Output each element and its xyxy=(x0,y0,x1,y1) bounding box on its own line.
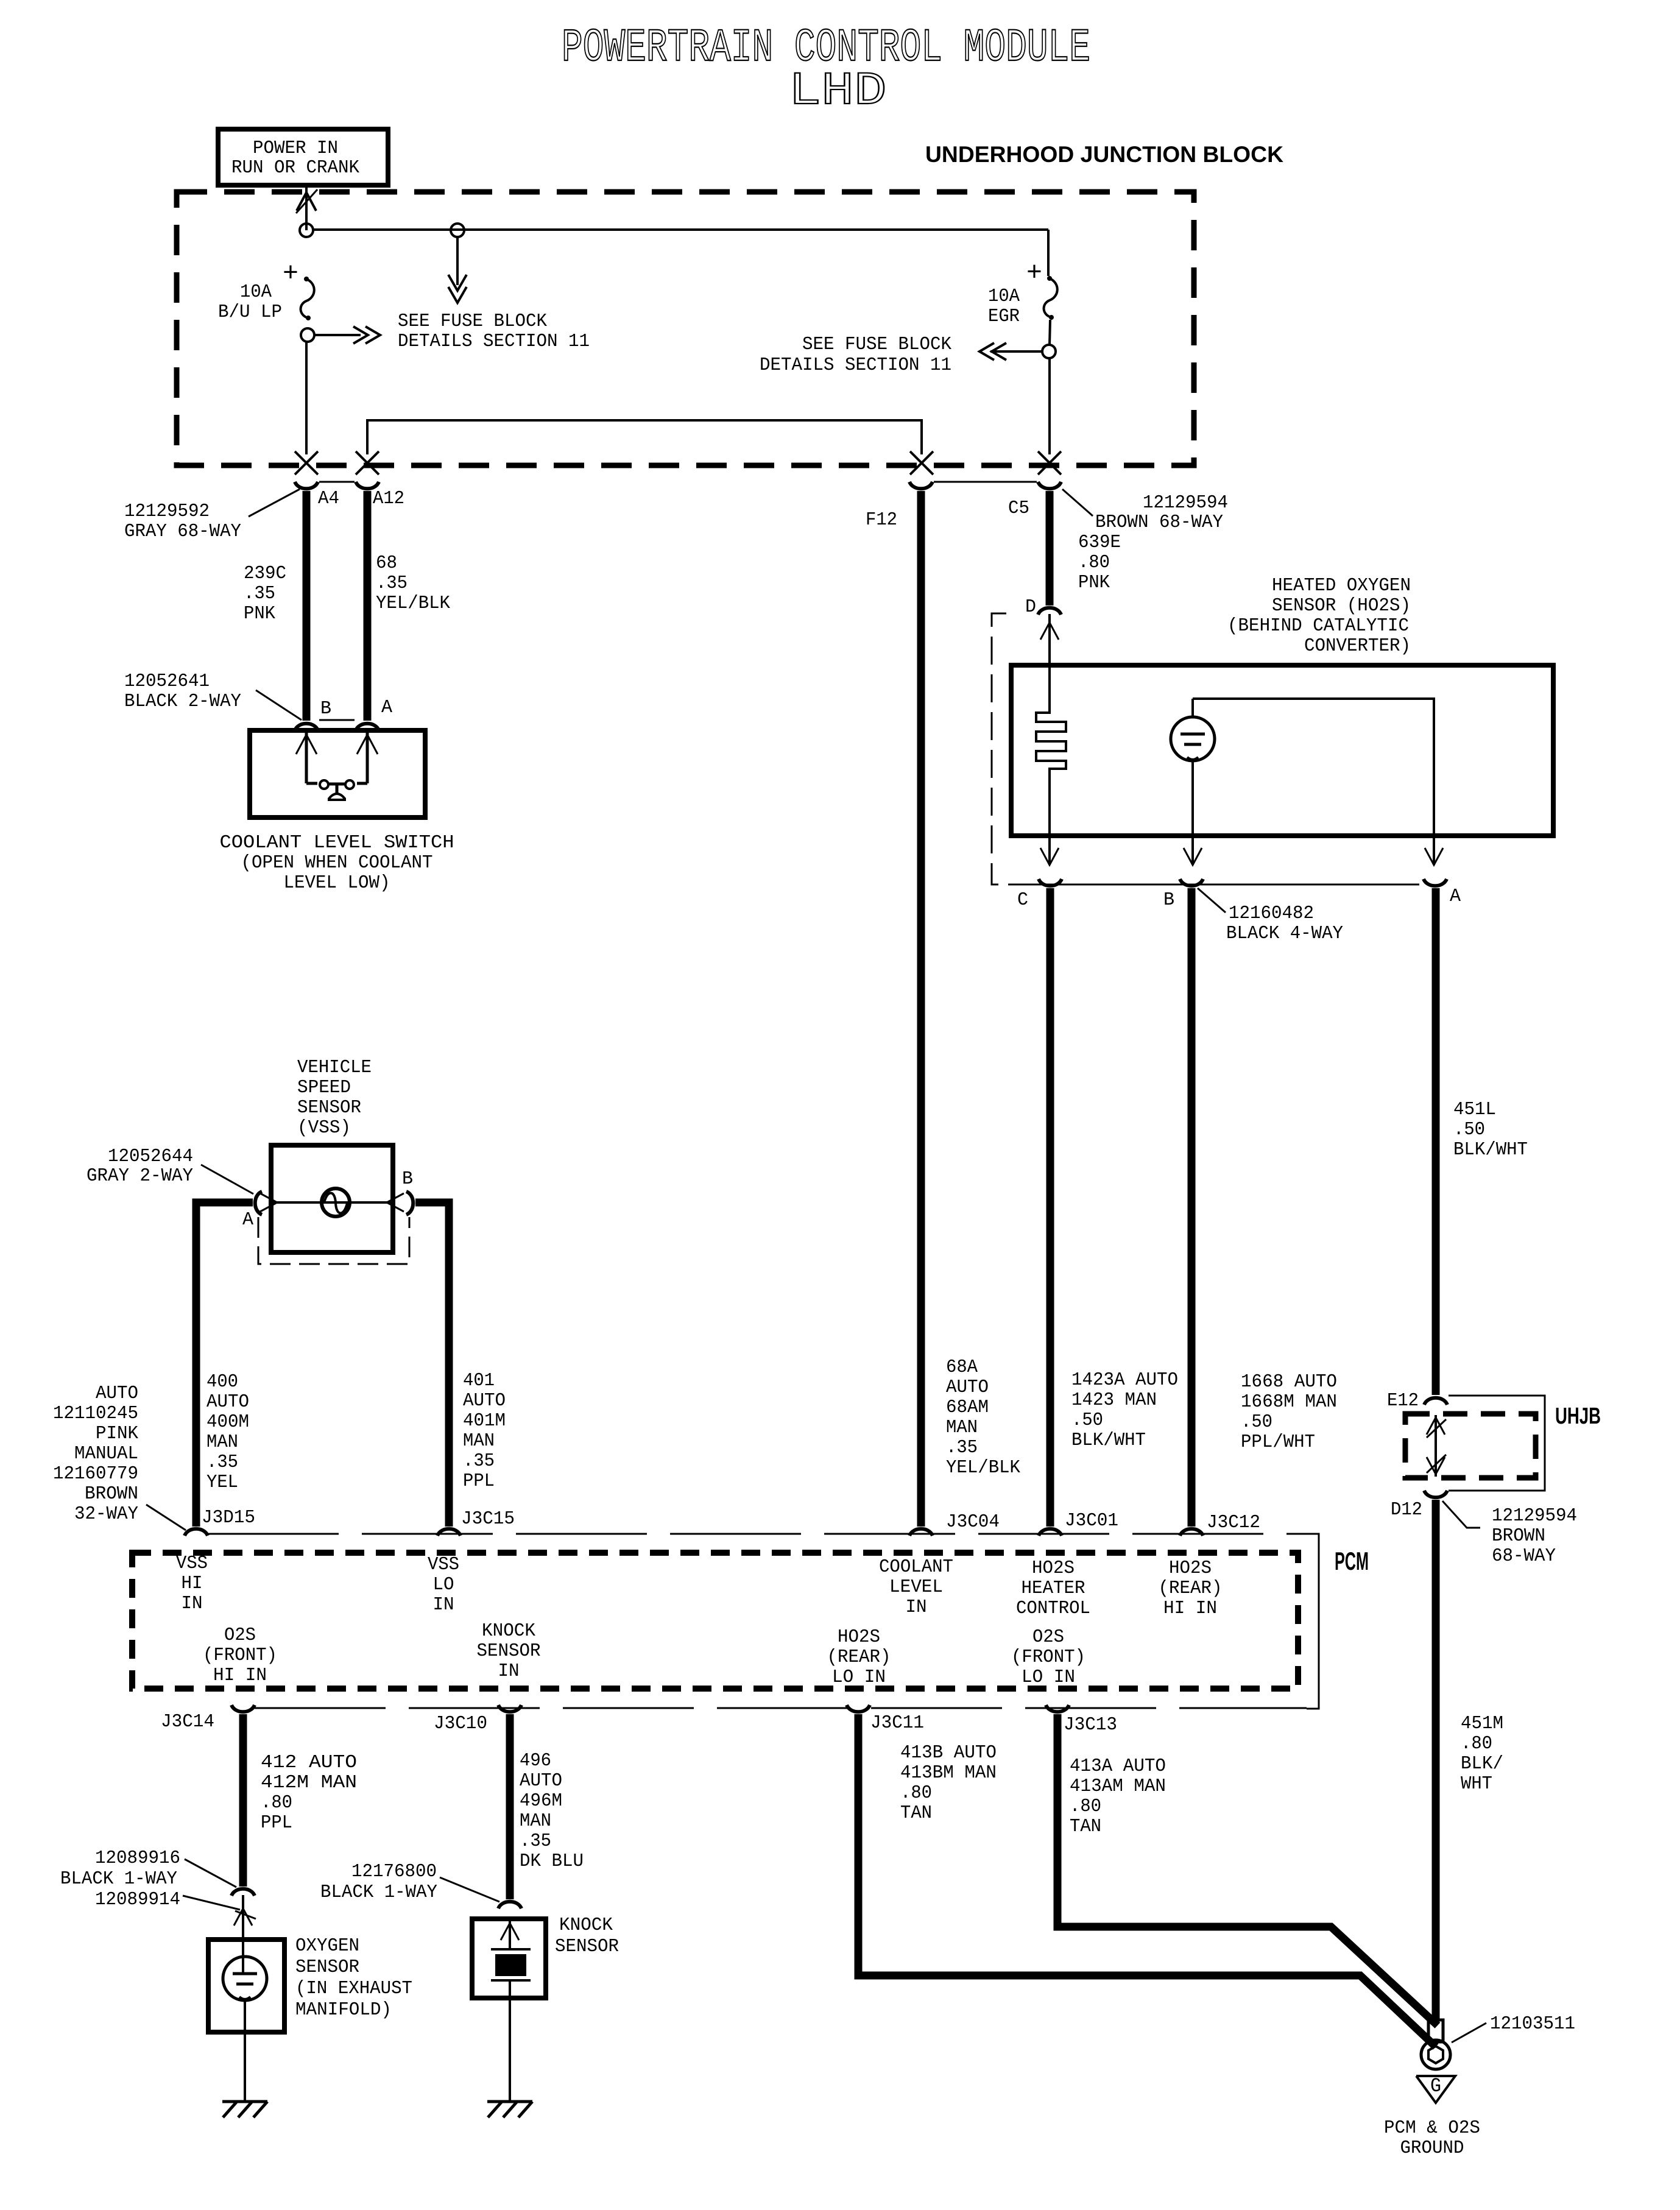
coolant level switch S1 box xyxy=(250,730,425,817)
svg-text:A: A xyxy=(242,1209,253,1230)
PCM bracket and label xyxy=(1307,1534,1319,1709)
svg-text:12052641: 12052641 xyxy=(124,671,210,692)
svg-text:TAN: TAN xyxy=(1070,1816,1101,1837)
svg-text:BROWN: BROWN xyxy=(85,1483,138,1505)
svg-text:LO IN: LO IN xyxy=(1022,1667,1075,1688)
connector pin A12 xyxy=(356,482,379,489)
svg-text:G: G xyxy=(1430,2075,1441,2097)
svg-text:PPL: PPL xyxy=(463,1470,495,1492)
svg-text:B: B xyxy=(320,698,331,719)
svg-text:496: 496 xyxy=(520,1750,551,1771)
svg-text:12089914: 12089914 xyxy=(95,1889,180,1910)
svg-text:SENSOR: SENSOR xyxy=(555,1936,619,1957)
connector pin A HO2S xyxy=(1424,879,1447,886)
svg-text:.80: .80 xyxy=(900,1782,932,1804)
svg-text:J3C01: J3C01 xyxy=(1065,1510,1118,1531)
svg-text:.35: .35 xyxy=(206,1452,238,1473)
connector pin F12 xyxy=(909,482,933,489)
svg-text:RUN OR CRANK: RUN OR CRANK xyxy=(231,157,359,178)
ground symbol oxygen sensor xyxy=(222,2100,267,2103)
svg-text:SENSOR: SENSOR xyxy=(477,1640,541,1662)
svg-text:IN: IN xyxy=(182,1593,203,1614)
connector pin C5 xyxy=(1038,482,1061,489)
svg-text:1423A AUTO: 1423A AUTO xyxy=(1071,1369,1178,1391)
svg-text:1668 AUTO: 1668 AUTO xyxy=(1241,1371,1337,1393)
svg-text:C: C xyxy=(1017,889,1028,911)
svg-text:639E: 639E xyxy=(1078,532,1121,553)
svg-text:CONTROL: CONTROL xyxy=(1016,1598,1090,1619)
svg-text:HI IN: HI IN xyxy=(213,1665,267,1686)
svg-text:TAN: TAN xyxy=(900,1802,932,1824)
wire 413B TAN J3C11 to ground xyxy=(858,1714,1436,2047)
wire 400 YEL VSS-A to PCM J3D15 xyxy=(196,1202,253,1527)
lead A out of HO2S box xyxy=(1433,836,1435,865)
fuse F1 10A B/U LP xyxy=(304,277,309,281)
svg-text:BLK/WHT: BLK/WHT xyxy=(1453,1139,1528,1160)
svg-text:12103511: 12103511 xyxy=(1490,2013,1575,2035)
svg-text:496M: 496M xyxy=(520,1790,562,1812)
svg-text:PINK: PINK xyxy=(96,1423,138,1444)
svg-text:68AM: 68AM xyxy=(946,1397,989,1418)
svg-text:C5: C5 xyxy=(1008,498,1029,519)
svg-text:SEE FUSE BLOCK: SEE FUSE BLOCK xyxy=(398,311,547,332)
svg-text:GROUND: GROUND xyxy=(1400,2138,1464,2159)
svg-text:BROWN: BROWN xyxy=(1492,1525,1545,1547)
svg-text:PPL: PPL xyxy=(261,1812,292,1834)
vehicle speed sensor B2 box xyxy=(271,1145,393,1252)
svg-text:(BEHIND CATALYTIC: (BEHIND CATALYTIC xyxy=(1227,615,1409,637)
svg-text:POWER IN: POWER IN xyxy=(253,138,338,159)
svg-text:412M MAN: 412M MAN xyxy=(261,1772,357,1793)
svg-text:COOLANT LEVEL SWITCH: COOLANT LEVEL SWITCH xyxy=(220,832,454,853)
oxygen sensor ground lead xyxy=(244,2002,246,2102)
svg-text:SENSOR: SENSOR xyxy=(295,1957,359,1978)
connector pin A coolant switch xyxy=(356,724,379,730)
wire 1668 PPL/WHT B to J3C12 xyxy=(1188,888,1196,1527)
svg-text:J3C11: J3C11 xyxy=(870,1712,924,1734)
svg-text:.80: .80 xyxy=(1078,552,1110,573)
ground symbol G PCM and O2S xyxy=(1416,2076,1455,2103)
svg-text:.50: .50 xyxy=(1453,1119,1485,1140)
connector pin J3C11 xyxy=(847,1705,870,1712)
PCM top connector line xyxy=(208,1533,1307,1535)
wire C5 inside junction block xyxy=(1048,358,1051,454)
connector 12129594 BROWN 68-WAY label at D12 xyxy=(1442,1501,1480,1528)
coolant switch contacts xyxy=(306,782,317,785)
fuse F2 10A EGR xyxy=(1047,276,1052,281)
connector pin B VSS xyxy=(406,1191,413,1215)
svg-text:HO2S: HO2S xyxy=(1032,1558,1075,1579)
connector pin A VSS xyxy=(255,1191,262,1215)
svg-text:.50: .50 xyxy=(1241,1411,1272,1433)
VSS internal link xyxy=(273,1201,391,1204)
svg-text:12089916: 12089916 xyxy=(95,1848,180,1869)
svg-text:D: D xyxy=(1025,596,1036,618)
HO2S 4-way connector bracket xyxy=(992,613,1011,884)
connector pin J3C14 xyxy=(231,1705,255,1712)
svg-text:.80: .80 xyxy=(1070,1796,1101,1817)
connector line F12-C5 xyxy=(934,481,1037,483)
svg-text:SENSOR (HO2S): SENSOR (HO2S) xyxy=(1272,595,1411,616)
connector pin J3C12 xyxy=(1180,1529,1203,1536)
svg-text:413B AUTO: 413B AUTO xyxy=(900,1742,997,1763)
svg-text:MAN: MAN xyxy=(520,1810,551,1832)
svg-text:VSS: VSS xyxy=(176,1553,208,1574)
wire 639E PNK C5 to HO2S pin D xyxy=(1046,491,1054,605)
svg-text:COOLANT: COOLANT xyxy=(879,1556,953,1578)
svg-text:MAN: MAN xyxy=(946,1417,978,1438)
svg-text:HO2S: HO2S xyxy=(838,1626,880,1648)
svg-text:B/U LP: B/U LP xyxy=(218,302,282,323)
knock sensor ground lead xyxy=(509,1980,511,2102)
heated oxygen sensor B1S2 box xyxy=(1011,665,1553,836)
svg-text:HEATED OXYGEN: HEATED OXYGEN xyxy=(1272,575,1411,596)
bus wire A12 to F12 xyxy=(367,420,922,454)
svg-text:.35: .35 xyxy=(244,583,275,604)
wire 451L BLK/WHT A to E12 xyxy=(1432,888,1440,1395)
wire coolant level F12 to J3C04 xyxy=(917,491,925,1527)
svg-text:AUTO: AUTO xyxy=(520,1770,562,1792)
connector line A4-A12 xyxy=(319,481,355,483)
svg-text:OXYGEN: OXYGEN xyxy=(295,1935,359,1957)
svg-text:12129594: 12129594 xyxy=(1143,492,1228,514)
wire 413A TAN J3C13 to ground xyxy=(1057,1714,1438,2025)
svg-text:VSS: VSS xyxy=(428,1554,459,1575)
svg-text:A4: A4 xyxy=(318,488,339,509)
svg-text:(OPEN WHEN COOLANT: (OPEN WHEN COOLANT xyxy=(241,852,433,874)
svg-text:LHD: LHD xyxy=(789,65,887,118)
connector 12160482 BLACK 4-WAY label xyxy=(1198,888,1226,913)
svg-text:PNK: PNK xyxy=(244,603,275,624)
svg-text:E12: E12 xyxy=(1387,1390,1419,1411)
svg-text:MAN: MAN xyxy=(206,1432,238,1453)
connector pin J3C10 xyxy=(498,1705,521,1712)
svg-text:YEL/BLK: YEL/BLK xyxy=(376,593,450,614)
svg-text:10A: 10A xyxy=(988,286,1020,307)
coolant switch float arm xyxy=(336,785,339,794)
svg-text:MAN: MAN xyxy=(463,1430,495,1452)
svg-text:68: 68 xyxy=(376,552,397,574)
svg-text:1423 MAN: 1423 MAN xyxy=(1071,1389,1157,1411)
UHJB dashed box xyxy=(1405,1414,1536,1478)
svg-text:D12: D12 xyxy=(1391,1499,1422,1520)
connector pin B coolant switch xyxy=(295,724,318,730)
bus wire fuse top xyxy=(313,228,1048,231)
lead C out of HO2S box xyxy=(1048,836,1051,865)
svg-text:EGR: EGR xyxy=(988,306,1020,327)
knock sensor B3 box xyxy=(472,1919,546,1998)
svg-text:BLACK 1-WAY: BLACK 1-WAY xyxy=(60,1868,177,1890)
svg-text:MANUAL: MANUAL xyxy=(74,1443,138,1464)
svg-text:LO IN: LO IN xyxy=(832,1667,886,1688)
connector pin J3C13 xyxy=(1046,1705,1069,1712)
svg-text:AUTO: AUTO xyxy=(96,1383,138,1404)
svg-text:KNOCK: KNOCK xyxy=(559,1915,613,1936)
svg-text:B: B xyxy=(1163,889,1174,911)
svg-text:+: + xyxy=(283,259,298,289)
svg-text:DK BLU: DK BLU xyxy=(520,1851,584,1872)
connector pin E12 UHJB xyxy=(1424,1398,1447,1405)
svg-text:451M: 451M xyxy=(1461,1713,1503,1734)
svg-text:SEE FUSE BLOCK: SEE FUSE BLOCK xyxy=(802,334,951,355)
svg-text:239C: 239C xyxy=(244,563,286,584)
wire 412 PPL J3C14 to oxygen sensor xyxy=(239,1714,247,1887)
wire 496 DK BLU J3C10 to knock sensor xyxy=(506,1714,514,1899)
svg-text:32-WAY: 32-WAY xyxy=(74,1503,138,1525)
HO2S connector line xyxy=(1011,884,1419,886)
svg-text:J3C13: J3C13 xyxy=(1064,1714,1117,1735)
svg-text:LEVEL: LEVEL xyxy=(889,1576,943,1598)
connector pin B HO2S xyxy=(1180,879,1203,886)
svg-text:(IN EXHAUST: (IN EXHAUST xyxy=(295,1978,412,1999)
svg-text:DETAILS SECTION 11: DETAILS SECTION 11 xyxy=(760,355,951,376)
connector line B-A coolant switch xyxy=(319,719,355,721)
svg-text:VEHICLE: VEHICLE xyxy=(297,1057,372,1078)
HO2S sensing element xyxy=(1191,699,1194,718)
coolant switch pin B lead xyxy=(305,732,308,783)
connector pin J3C04 xyxy=(909,1529,933,1536)
svg-text:BLACK 4-WAY: BLACK 4-WAY xyxy=(1226,923,1343,944)
svg-text:401: 401 xyxy=(463,1370,495,1391)
feed tap arrow down xyxy=(456,237,459,285)
VSS connector bracket xyxy=(258,1217,409,1264)
svg-text:A: A xyxy=(381,697,392,718)
svg-text:IN: IN xyxy=(433,1594,454,1615)
svg-text:F12: F12 xyxy=(866,509,897,531)
svg-text:IN: IN xyxy=(906,1597,927,1618)
arrow into junction block top xyxy=(297,192,316,211)
lead B out of HO2S box xyxy=(1191,836,1194,865)
connector knock sensor 1-way xyxy=(498,1902,521,1908)
svg-text:400: 400 xyxy=(206,1371,238,1393)
svg-text:413BM MAN: 413BM MAN xyxy=(900,1762,997,1784)
svg-text:BLK/WHT: BLK/WHT xyxy=(1071,1430,1146,1451)
boundary cross A4 xyxy=(295,451,318,475)
svg-text:AUTO: AUTO xyxy=(946,1377,989,1398)
svg-text:68-WAY: 68-WAY xyxy=(1492,1545,1556,1567)
svg-text:10A: 10A xyxy=(240,281,272,303)
svg-text:PPL/WHT: PPL/WHT xyxy=(1241,1432,1315,1453)
svg-text:AUTO: AUTO xyxy=(463,1390,506,1411)
svg-text:B: B xyxy=(402,1168,413,1190)
svg-text:A: A xyxy=(1450,886,1461,907)
arrow from EGR fuse to fuse block note xyxy=(990,350,1042,353)
svg-text:12129592: 12129592 xyxy=(124,501,210,522)
junction circle at B/U LP fuse top xyxy=(300,224,313,237)
knock sensor lead xyxy=(509,1921,511,1949)
ground symbol knock sensor xyxy=(487,2100,532,2103)
oxygen sensor element xyxy=(223,1957,267,2000)
svg-text:.35: .35 xyxy=(520,1830,551,1852)
svg-text:401M: 401M xyxy=(463,1410,506,1432)
svg-text:.35: .35 xyxy=(463,1450,495,1472)
svg-text:UHJB: UHJB xyxy=(1555,1403,1601,1429)
svg-text:HO2S: HO2S xyxy=(1169,1558,1212,1579)
svg-text:DETAILS SECTION 11: DETAILS SECTION 11 xyxy=(398,331,590,352)
svg-text:(REAR): (REAR) xyxy=(827,1647,891,1668)
connector pin J3C01 xyxy=(1039,1529,1062,1536)
svg-text:.80: .80 xyxy=(261,1792,292,1813)
svg-text:1668M MAN: 1668M MAN xyxy=(1241,1391,1337,1413)
svg-text:YEL/BLK: YEL/BLK xyxy=(946,1457,1020,1478)
connector pin A4 xyxy=(295,482,318,489)
svg-text:12110245: 12110245 xyxy=(53,1403,138,1424)
svg-text:PCM & O2S: PCM & O2S xyxy=(1384,2117,1480,2139)
wire 1423 BLK/WHT C to J3C01 xyxy=(1046,888,1054,1527)
wire 401 PPL VSS-B to PCM J3C15 xyxy=(415,1202,449,1527)
svg-text:(REAR): (REAR) xyxy=(1159,1578,1223,1599)
svg-text:413AM MAN: 413AM MAN xyxy=(1070,1776,1166,1797)
svg-text:SENSOR: SENSOR xyxy=(297,1097,361,1118)
svg-text:(FRONT): (FRONT) xyxy=(203,1645,277,1666)
svg-text:68A: 68A xyxy=(946,1357,978,1378)
svg-text:.35: .35 xyxy=(946,1437,978,1458)
HO2S heater element xyxy=(1036,665,1066,836)
svg-text:451L: 451L xyxy=(1453,1099,1496,1120)
svg-text:12160779: 12160779 xyxy=(53,1463,138,1485)
HO2S internal wire to pin A xyxy=(1193,699,1434,836)
wire 451M BLK/WHT D12 to ground xyxy=(1432,1500,1440,2020)
svg-text:O2S: O2S xyxy=(224,1625,256,1646)
connector pin D HO2S xyxy=(1038,608,1061,615)
svg-text:GRAY 68-WAY: GRAY 68-WAY xyxy=(124,521,241,542)
svg-text:GRAY 2-WAY: GRAY 2-WAY xyxy=(86,1165,193,1187)
svg-text:413A AUTO: 413A AUTO xyxy=(1070,1756,1166,1777)
svg-text:LEVEL LOW): LEVEL LOW) xyxy=(284,872,390,894)
UHJB bracket and label xyxy=(1449,1395,1536,1397)
svg-text:HI: HI xyxy=(182,1573,203,1594)
wire A4 inside junction block xyxy=(305,342,308,454)
svg-text:400M: 400M xyxy=(206,1411,249,1433)
svg-text:PNK: PNK xyxy=(1078,572,1110,593)
svg-text:12176800: 12176800 xyxy=(351,1861,437,1882)
boundary cross A12 xyxy=(356,451,379,475)
ground lug 12103511 xyxy=(1428,2020,1443,2042)
svg-text:J3C12: J3C12 xyxy=(1207,1512,1260,1533)
svg-text:.80: .80 xyxy=(1461,1733,1492,1754)
svg-text:PCM: PCM xyxy=(1335,1547,1369,1575)
connector pin J3C15 xyxy=(437,1529,461,1536)
boundary cross C5 xyxy=(1038,451,1061,475)
svg-text:12052644: 12052644 xyxy=(108,1146,193,1167)
svg-text:BROWN 68-WAY: BROWN 68-WAY xyxy=(1095,512,1223,533)
svg-text:.50: .50 xyxy=(1071,1410,1103,1431)
svg-text:CONVERTER): CONVERTER) xyxy=(1304,635,1411,657)
svg-text:A12: A12 xyxy=(373,488,404,509)
svg-text:YEL: YEL xyxy=(206,1472,238,1493)
svg-text:O2S: O2S xyxy=(1032,1626,1064,1648)
svg-text:+: + xyxy=(1026,258,1042,289)
arrow from B/U LP fuse to fuse block note xyxy=(314,334,361,336)
PCM bottom connector line xyxy=(255,1707,1307,1709)
svg-text:12129594: 12129594 xyxy=(1492,1505,1577,1527)
svg-text:J3C15: J3C15 xyxy=(461,1508,515,1530)
svg-text:BLK/: BLK/ xyxy=(1461,1753,1503,1774)
svg-text:AUTO: AUTO xyxy=(206,1391,249,1413)
svg-text:412 AUTO: 412 AUTO xyxy=(261,1752,357,1773)
svg-text:(VSS): (VSS) xyxy=(297,1117,351,1139)
wire 239C .35 PNK xyxy=(303,491,311,721)
svg-text:.35: .35 xyxy=(376,573,408,594)
oxygen sensor lead xyxy=(242,1895,244,1974)
svg-text:BLACK 1-WAY: BLACK 1-WAY xyxy=(320,1882,437,1903)
svg-text:HEATER: HEATER xyxy=(1022,1578,1085,1599)
power source box POWER IN RUN OR CRANK xyxy=(218,129,388,185)
svg-text:12160482: 12160482 xyxy=(1229,903,1314,924)
svg-text:(FRONT): (FRONT) xyxy=(1011,1647,1085,1668)
knock sensor piezo element xyxy=(491,1948,531,1951)
underhood junction block dashed box xyxy=(177,192,1194,465)
svg-text:SPEED: SPEED xyxy=(297,1077,351,1098)
svg-text:UNDERHOOD JUNCTION BLOCK: UNDERHOOD JUNCTION BLOCK xyxy=(925,142,1283,167)
svg-text:IN: IN xyxy=(498,1661,520,1682)
svg-text:LO: LO xyxy=(433,1574,454,1595)
oxygen sensor B1S1 box xyxy=(208,1940,284,2032)
svg-text:J3C10: J3C10 xyxy=(434,1713,487,1734)
boundary cross F12 xyxy=(910,451,933,475)
svg-text:BLACK 2-WAY: BLACK 2-WAY xyxy=(124,691,241,712)
junction circle feed tap xyxy=(451,224,464,237)
svg-text:J3C04: J3C04 xyxy=(946,1511,1000,1533)
PCM dashed box xyxy=(132,1553,1298,1689)
svg-text:MANIFOLD): MANIFOLD) xyxy=(295,1999,392,2021)
svg-text:WHT: WHT xyxy=(1461,1773,1492,1795)
svg-text:J3D15: J3D15 xyxy=(202,1507,255,1528)
lead D into HO2S box xyxy=(1048,614,1051,665)
VSS AC generator symbol xyxy=(322,1188,350,1216)
wire 68 YEL/BLK xyxy=(364,491,372,721)
connector pin D12 UHJB xyxy=(1424,1491,1447,1497)
UHJB internal link arrows xyxy=(1435,1415,1437,1477)
connector pin J3D15 xyxy=(185,1529,208,1536)
coolant switch pin A lead xyxy=(366,732,369,783)
connector pin C HO2S xyxy=(1039,879,1062,886)
svg-text:HI IN: HI IN xyxy=(1163,1598,1217,1619)
wire from POWER IN to junction block xyxy=(305,185,308,230)
svg-text:KNOCK: KNOCK xyxy=(482,1620,535,1642)
svg-text:J3C14: J3C14 xyxy=(161,1711,214,1732)
connector oxygen sensor 1-way xyxy=(231,1889,255,1896)
